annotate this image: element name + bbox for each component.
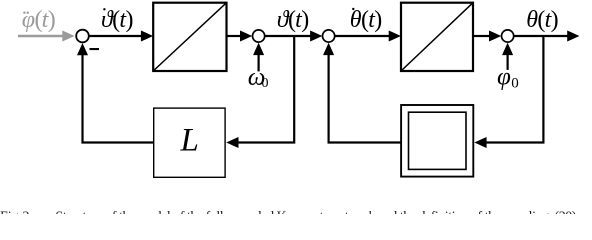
block L (observer gain) — [154, 108, 225, 177]
diagonal of integrator 2 — [401, 3, 473, 71]
wire sum1 to integrator 1 — [90, 35, 142, 37]
wire omega0 input — [258, 52, 260, 71]
label theta2-dot(t) — [350, 7, 382, 33]
integrator block 2 — [401, 3, 473, 71]
diagonal of integrator 1 — [153, 3, 226, 71]
svg-text:φ: φ — [497, 64, 511, 91]
svg-text:ϑ(t): ϑ(t) — [101, 7, 133, 33]
svg-text:φ(t): φ(t) — [22, 7, 56, 33]
node sum junction 1 — [76, 30, 89, 43]
minus sign at sum 1 — [90, 48, 100, 50]
wire sum2 to sum3 with branch node — [265, 35, 311, 37]
wire branch down to L feedback — [238, 36, 295, 143]
node sum junction 2 (omega0) — [253, 30, 265, 42]
wire phi0 input — [507, 52, 509, 70]
node sum junction 3 (loop2) — [323, 30, 335, 42]
wire integrator1 to sum2 — [228, 35, 242, 37]
svg-text:L: L — [180, 123, 199, 159]
inner square of coupling block — [409, 112, 467, 169]
wire branch down to coupling feedback — [485, 36, 543, 143]
svg-text:0: 0 — [511, 76, 519, 92]
wire output theta(t) — [514, 35, 568, 37]
wire L output back to sum1 — [83, 54, 154, 143]
svg-text:θ(t): θ(t) — [526, 7, 558, 33]
block coupling (double square) — [401, 105, 473, 177]
label theta1-dot(t) — [101, 7, 133, 33]
svg-text:Fig. 2.: Fig. 2. — [0, 210, 33, 214]
svg-text:0: 0 — [262, 76, 269, 91]
node sum junction 4 (phi0) — [502, 30, 514, 42]
wire gray input — [18, 35, 63, 37]
svg-text:Structure of the model of the: Structure of the model of the fully coup… — [55, 210, 576, 214]
integrator block 1 — [153, 3, 226, 71]
svg-text:ϑ(t): ϑ(t) — [277, 7, 309, 33]
label phi0 — [497, 64, 519, 92]
wire coupling output back to sum3 — [329, 54, 402, 143]
wire integrator2 to sum4 — [474, 35, 490, 37]
label omega0 — [248, 64, 269, 91]
wire sum3 to integrator 2 — [335, 35, 390, 37]
svg-text:θ(t): θ(t) — [350, 7, 382, 33]
input label phi-ddot(t) gray — [22, 7, 56, 33]
